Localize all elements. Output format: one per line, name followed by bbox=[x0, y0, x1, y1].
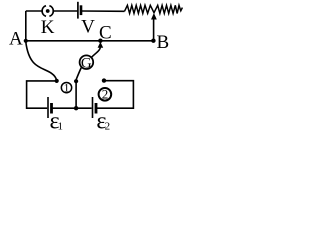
svg-text:A: A bbox=[9, 29, 23, 50]
svg-text:G: G bbox=[81, 55, 92, 71]
svg-text:K: K bbox=[41, 17, 55, 38]
svg-text:V: V bbox=[81, 16, 95, 37]
svg-text:C: C bbox=[99, 22, 112, 43]
svg-text:1: 1 bbox=[64, 82, 70, 94]
svg-text:2: 2 bbox=[102, 87, 109, 102]
svg-text:B: B bbox=[157, 32, 170, 53]
svg-text:2: 2 bbox=[105, 121, 111, 133]
svg-text:1: 1 bbox=[57, 121, 63, 133]
